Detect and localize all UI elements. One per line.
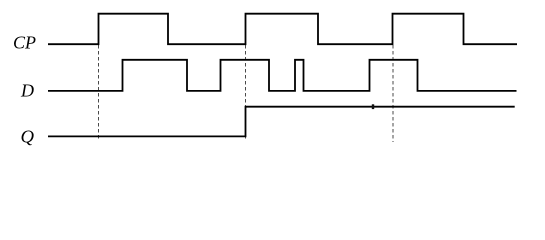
dashed clock-edge marker line 1 (x=98.5)	[98, 45, 100, 140]
svg-text:CP: CP	[13, 32, 36, 52]
dashed clock-edge marker line 3 (x=393)	[392, 45, 394, 142]
CP clock waveform	[48, 14, 517, 45]
D data waveform	[48, 60, 517, 91]
Q output waveform	[48, 107, 515, 137]
junction speck on Q high line	[372, 104, 374, 109]
svg-text:D: D	[20, 81, 34, 101]
svg-text:Q: Q	[21, 126, 35, 146]
dashed clock-edge marker line 2 (x=245.5)	[245, 45, 247, 140]
